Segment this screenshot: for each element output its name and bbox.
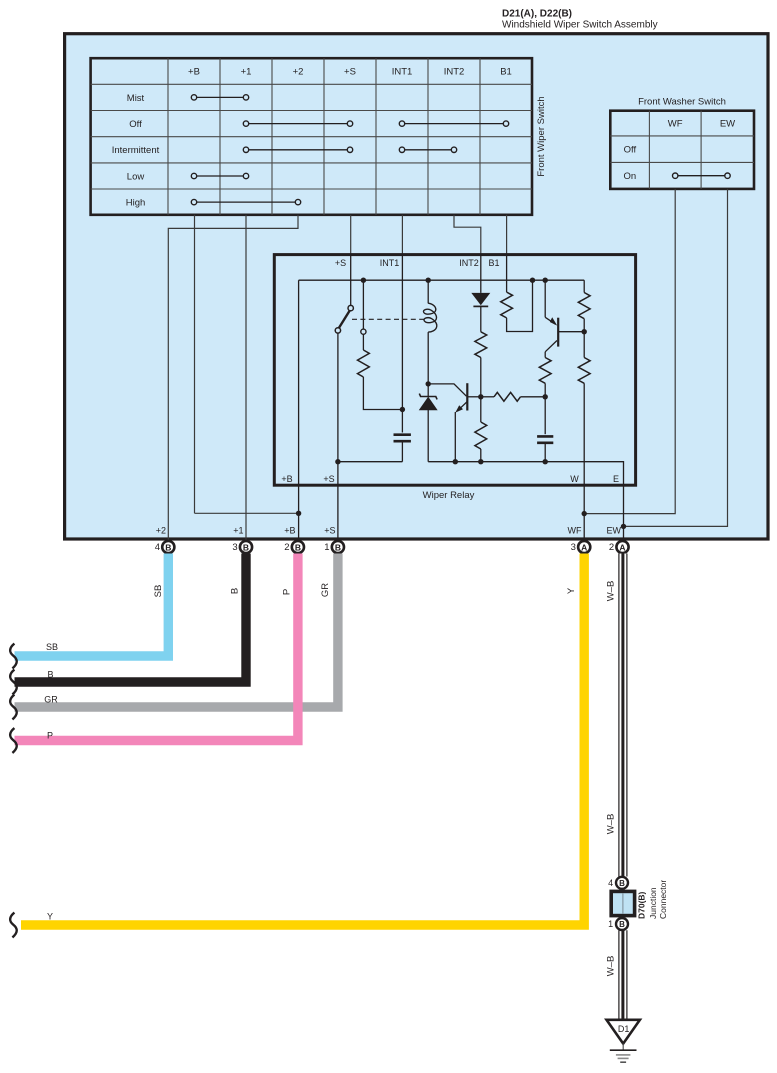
svg-text:SB: SB [153, 585, 164, 598]
svg-text:+2: +2 [156, 526, 166, 536]
wire INT2 column jog right into relay [454, 215, 481, 254]
node Q2 collector [543, 394, 548, 399]
node on ground rail [478, 459, 483, 464]
wire B (black) from pin 3 [15, 554, 247, 683]
svg-text:1: 1 [608, 919, 613, 929]
svg-text:4: 4 [155, 542, 160, 553]
svg-text:B: B [47, 670, 53, 680]
svg-text:INT2: INT2 [444, 67, 465, 78]
resistor NO contact branch [362, 334, 364, 350]
svg-text:3: 3 [571, 542, 576, 553]
svg-text:GR: GR [44, 695, 58, 705]
svg-text:+2: +2 [293, 67, 304, 78]
node EW pin join [621, 524, 626, 529]
svg-text:+B: +B [284, 526, 295, 536]
wire +2 column jog left down to pin 4 [168, 215, 298, 540]
svg-text:INT1: INT1 [392, 67, 413, 78]
transistor Q2 [544, 280, 546, 317]
node divider mid [582, 329, 587, 334]
node Q1 base [478, 394, 483, 399]
node NO contact on rail [361, 278, 366, 283]
svg-text:B: B [165, 542, 171, 552]
svg-text:D1: D1 [618, 1024, 630, 1034]
svg-text:W: W [570, 474, 579, 484]
relay coil L1 [427, 280, 429, 303]
ground D1 triangle [607, 1020, 640, 1044]
contacts Intermittent row [249, 149, 348, 151]
dashed relay actuation link [352, 318, 424, 320]
svg-text:A: A [619, 542, 625, 552]
pin 2(A) [616, 541, 628, 553]
resistor INT2 lower [480, 397, 482, 422]
svg-text:1: 1 [324, 542, 329, 553]
wire INT1 stub [401, 254, 403, 433]
svg-text:Y: Y [47, 912, 53, 922]
pin 4 B circle [616, 877, 628, 889]
ground stem [622, 1044, 624, 1051]
svg-text:B: B [335, 542, 341, 552]
svg-text:EW: EW [607, 526, 622, 536]
svg-text:SB: SB [46, 642, 58, 652]
wire top rail [299, 279, 585, 281]
svg-text:P: P [282, 589, 293, 595]
node B1 resistor to rail [530, 278, 535, 283]
pin 2(B) [292, 541, 304, 553]
svg-text:+B: +B [188, 67, 200, 78]
svg-text:E: E [613, 474, 619, 484]
svg-text:Low: Low [127, 171, 145, 182]
squiggle SB [10, 644, 17, 669]
contacts Low row [197, 175, 244, 177]
svg-text:W–B: W–B [605, 814, 616, 835]
wire SB (sky blue) from pin 4 [15, 554, 169, 657]
svg-text:Off: Off [624, 145, 637, 156]
wire washer EW column down-left to EW pin node [624, 189, 728, 527]
squiggle B [10, 670, 17, 695]
contacts On row WF-EW [678, 175, 725, 177]
pin 3(B) [240, 541, 252, 553]
svg-text:EW: EW [720, 119, 735, 130]
wire GR (gray) from pin 1 [15, 554, 338, 708]
node Q1 emitter on rail [453, 459, 458, 464]
svg-text:High: High [126, 198, 146, 209]
svg-text:W–B: W–B [605, 956, 616, 977]
svg-text:B1: B1 [488, 258, 499, 268]
node coil top [426, 278, 431, 283]
wire W output down to pin 3A [583, 383, 585, 540]
wire +1 column down to pin 3 [245, 215, 247, 540]
wire +B branch down to pin 2 [298, 280, 300, 540]
svg-text:Intermittent: Intermittent [112, 145, 160, 156]
node C2 on rail [543, 459, 548, 464]
pin 1(B) [332, 541, 344, 553]
node INT1 junction [400, 407, 405, 412]
wire switch to +S pin [337, 333, 339, 540]
svg-text:B: B [619, 879, 625, 888]
contacts Mist row [197, 96, 244, 98]
svg-text:B: B [295, 542, 301, 552]
svg-text:On: On [624, 171, 637, 182]
zener diode ZD1 [427, 384, 429, 397]
wire B1 column into relay [506, 215, 508, 254]
svg-text:Front Washer Switch: Front Washer Switch [638, 97, 726, 108]
svg-text:3: 3 [232, 542, 237, 553]
svg-text:Mist: Mist [127, 93, 145, 104]
svg-text:GR: GR [320, 583, 331, 597]
capacitor C2 [544, 397, 546, 434]
resistor INT2 upper [475, 332, 487, 358]
wire Y (yellow) from pin 3A [21, 554, 584, 926]
svg-text:P: P [47, 731, 53, 741]
node WF pin join [582, 511, 587, 516]
junction connector D70(B) [611, 891, 634, 915]
resistor divider lower [583, 332, 585, 358]
svg-text:+S: +S [344, 67, 356, 78]
wire +B column down to pin2 join [194, 215, 196, 514]
svg-text:Y: Y [566, 587, 577, 594]
node coil bottom / zener top [426, 381, 431, 386]
wire P (pink) from pin 2 [15, 554, 298, 741]
pin 3(A) [578, 541, 590, 553]
resistor Q2 collector [544, 352, 546, 358]
svg-text:2: 2 [284, 542, 289, 553]
squiggle Y [10, 913, 17, 938]
transistor Q1 [428, 384, 466, 396]
relay switch blade [339, 310, 350, 328]
contacts High row [197, 201, 296, 203]
wiper relay box [274, 255, 635, 486]
svg-text:INT1: INT1 [380, 258, 400, 268]
svg-text:WF: WF [668, 119, 683, 130]
wire +S stub [350, 254, 352, 306]
svg-text:Connector: Connector [658, 880, 668, 919]
svg-text:Front Wiper Switch: Front Wiper Switch [536, 96, 547, 176]
wire W-B lower segment [618, 930, 627, 1019]
windshield wiper switch assembly box [65, 34, 768, 539]
resistor B1 [501, 292, 513, 318]
front washer switch table [610, 111, 754, 189]
svg-text:B: B [619, 920, 625, 929]
svg-text:D21(A), D22(B): D21(A), D22(B) [502, 9, 572, 20]
svg-text:W–B: W–B [605, 581, 616, 602]
svg-text:B1: B1 [500, 67, 512, 78]
wire B1 stub [506, 254, 508, 292]
node switch on ground rail [335, 459, 340, 464]
squiggle GR [10, 695, 17, 720]
svg-text:+B: +B [281, 474, 292, 484]
resistor divider upper [583, 280, 585, 292]
wire ground rail segment B [428, 462, 623, 540]
wire INT1 column into relay [401, 215, 403, 254]
svg-text:+1: +1 [241, 67, 252, 78]
pin 4(B) [162, 541, 174, 553]
svg-text:Windshield Wiper Switch Assemb: Windshield Wiper Switch Assembly [502, 20, 658, 31]
resistor base coupling [481, 396, 494, 398]
svg-text:B: B [230, 588, 241, 594]
contacts Off row [249, 123, 348, 125]
svg-text:+S: +S [323, 474, 334, 484]
front wiper switch table [91, 58, 532, 215]
wire INT2 stub [480, 254, 482, 293]
svg-text:+1: +1 [233, 526, 243, 536]
svg-text:+S: +S [324, 526, 335, 536]
diode D2 [471, 293, 490, 305]
squiggle P [10, 728, 17, 753]
svg-text:Junction: Junction [648, 887, 658, 919]
pin 1 B circle [616, 918, 628, 930]
node +B pin join [195, 512, 299, 514]
wire W-B upper segment [618, 554, 627, 877]
svg-text:INT2: INT2 [459, 258, 479, 268]
node Q2 emitter on rail [543, 278, 548, 283]
svg-text:+S: +S [335, 258, 346, 268]
wire washer WF column down-left to WF pin node [585, 189, 675, 514]
svg-text:Wiper Relay: Wiper Relay [423, 490, 475, 501]
wire ground rail segment A [338, 461, 403, 463]
svg-text:Off: Off [129, 119, 142, 130]
svg-text:D70(B): D70(B) [636, 891, 646, 919]
svg-text:B: B [243, 542, 249, 552]
capacitor C1 [394, 433, 411, 436]
svg-text:2: 2 [609, 542, 614, 553]
wire +S column into relay [350, 215, 352, 254]
svg-text:WF: WF [568, 526, 582, 536]
svg-text:A: A [581, 542, 587, 552]
ground hatching [610, 1049, 637, 1051]
svg-text:4: 4 [608, 878, 613, 888]
